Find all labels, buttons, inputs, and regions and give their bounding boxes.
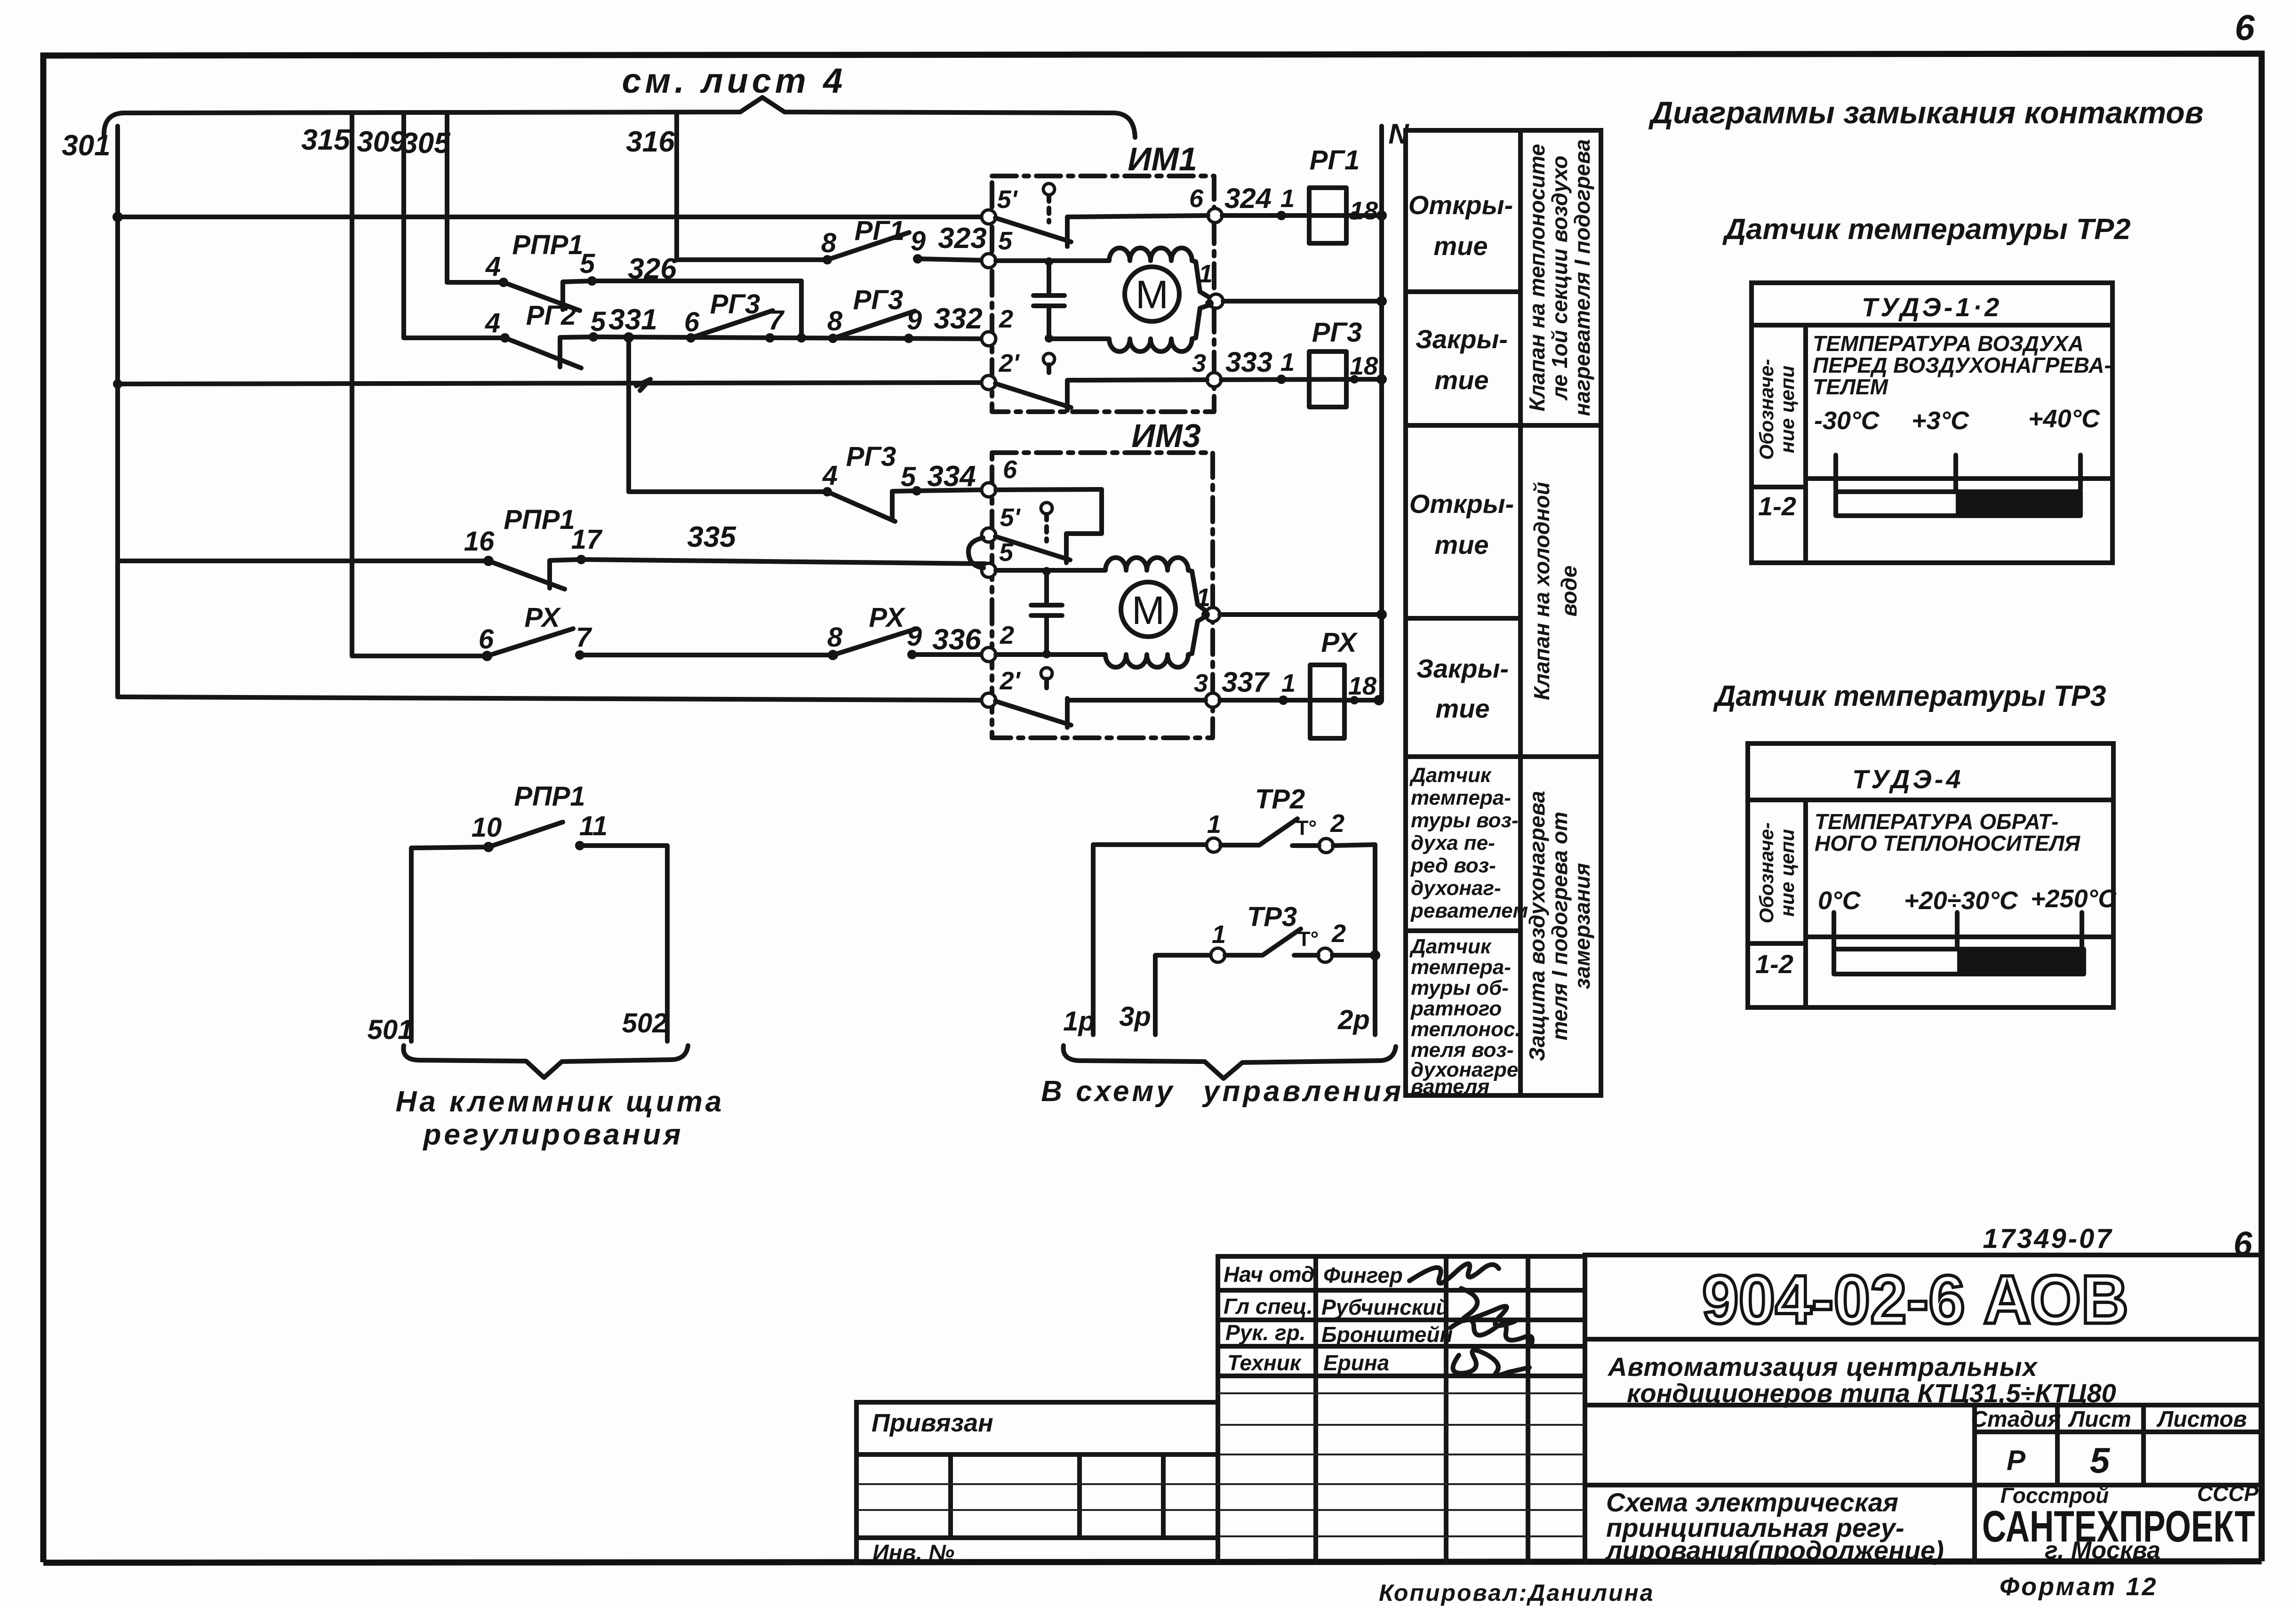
svg-text:ТУДЭ-1·2: ТУДЭ-1·2 (1862, 292, 2002, 322)
svg-text:3р: 3р (1119, 1001, 1151, 1032)
svg-text:301: 301 (62, 129, 110, 162)
svg-text:Защита воздухонагрева: Защита воздухонагрева (1525, 791, 1549, 1062)
svg-text:2': 2' (1000, 667, 1021, 695)
svg-text:лирования(продолжение): лирования(продолжение) (1605, 1535, 1944, 1565)
svg-text:333: 333 (1225, 346, 1272, 378)
svg-text:Закры-: Закры- (1416, 654, 1509, 683)
svg-text:6: 6 (1003, 455, 1017, 484)
svg-text:9: 9 (907, 305, 922, 336)
svg-text:501: 501 (368, 1015, 413, 1045)
svg-text:8: 8 (827, 306, 843, 336)
svg-text:4: 4 (822, 460, 838, 491)
svg-text:РГ1: РГ1 (1310, 145, 1360, 176)
svg-text:1: 1 (1212, 920, 1226, 949)
svg-text:ТУДЭ-4: ТУДЭ-4 (1852, 764, 1963, 794)
svg-text:323: 323 (938, 222, 986, 255)
svg-text:1-2: 1-2 (1758, 491, 1796, 521)
svg-text:кондиционеров типа КТЦ31,5÷КТЦ: кондиционеров типа КТЦ31,5÷КТЦ80 (1627, 1378, 2116, 1408)
svg-text:Обозначе-: Обозначе- (1755, 359, 1777, 460)
svg-text:2: 2 (1000, 621, 1014, 649)
svg-text:10: 10 (472, 812, 502, 843)
svg-text:1-2: 1-2 (1755, 949, 1793, 979)
svg-text:ние цепи: ние цепи (1776, 366, 1798, 453)
svg-text:9: 9 (911, 226, 926, 256)
svg-text:ПЕРЕД ВОЗДУХОНАГРЕВА-: ПЕРЕД ВОЗДУХОНАГРЕВА- (1813, 353, 2112, 377)
svg-text:Датчик температуры ТР3: Датчик температуры ТР3 (1713, 680, 2106, 712)
svg-text:Датчик: Датчик (1409, 764, 1492, 787)
svg-text:темпера-: темпера- (1411, 956, 1511, 979)
svg-text:Бронштейн: Бронштейн (1321, 1322, 1453, 1347)
svg-text:+250°С: +250°С (2031, 885, 2117, 913)
svg-text:тие: тие (1434, 365, 1488, 395)
svg-text:+20÷30°С: +20÷30°С (1904, 887, 2018, 915)
svg-text:см. лист 4: см. лист 4 (622, 61, 847, 100)
svg-text:ТЕЛЕМ: ТЕЛЕМ (1813, 375, 1889, 399)
svg-text:2: 2 (1330, 809, 1344, 838)
svg-text:РХ: РХ (869, 602, 905, 633)
svg-text:РГ3: РГ3 (710, 289, 760, 320)
svg-text:5: 5 (998, 227, 1013, 255)
svg-text:18: 18 (1350, 197, 1378, 225)
svg-text:5: 5 (2090, 1441, 2111, 1481)
svg-text:18: 18 (1348, 672, 1376, 700)
svg-text:2р: 2р (1337, 1005, 1370, 1035)
svg-text:Датчик температуры ТР2: Датчик температуры ТР2 (1722, 213, 2130, 246)
svg-text:Клапан на холодной: Клапан на холодной (1529, 482, 1554, 700)
svg-text:Клапан на теплоносите: Клапан на теплоносите (1525, 144, 1549, 411)
svg-text:РГ3: РГ3 (853, 285, 904, 315)
svg-text:Закры-: Закры- (1416, 324, 1508, 354)
svg-text:Р: Р (2007, 1445, 2026, 1476)
svg-text:теля I подогрева от: теля I подогрева от (1547, 812, 1572, 1040)
svg-text:нагревателя I подогрева: нагревателя I подогрева (1570, 139, 1594, 416)
svg-text:315: 315 (301, 124, 351, 156)
svg-text:904-02-6 АОВ: 904-02-6 АОВ (1702, 1261, 2128, 1338)
svg-text:РГ3: РГ3 (1312, 317, 1362, 348)
svg-text:РПР1: РПР1 (504, 504, 575, 535)
svg-text:г. Москва: г. Москва (2045, 1537, 2160, 1564)
svg-text:4: 4 (485, 308, 500, 338)
svg-text:М: М (1132, 588, 1165, 632)
svg-text:316: 316 (626, 126, 675, 158)
svg-text:337: 337 (1222, 666, 1270, 698)
svg-text:Лист: Лист (2068, 1407, 2131, 1432)
svg-text:Гл спец.: Гл спец. (1224, 1294, 1313, 1318)
svg-text:ратного: ратного (1410, 997, 1502, 1020)
svg-text:16: 16 (464, 526, 495, 557)
svg-text:3: 3 (1194, 669, 1208, 697)
svg-text:2: 2 (999, 305, 1013, 333)
svg-text:Стадия: Стадия (1971, 1407, 2061, 1432)
svg-text:ТР3: ТР3 (1247, 902, 1297, 932)
svg-text:ТЕМПЕРАТУРА ОБРАТ-: ТЕМПЕРАТУРА ОБРАТ- (1815, 809, 2058, 834)
svg-text:8: 8 (821, 228, 837, 258)
svg-text:Рук. гр.: Рук. гр. (1225, 1320, 1306, 1345)
svg-text:Т°: Т° (1298, 927, 1319, 951)
svg-text:НОГО ТЕПЛОНОСИТЕЛЯ: НОГО ТЕПЛОНОСИТЕЛЯ (1815, 831, 2081, 855)
svg-text:духонаг-: духонаг- (1411, 877, 1501, 900)
svg-text:Т°: Т° (1296, 816, 1317, 839)
svg-text:+3°С: +3°С (1912, 407, 1969, 435)
svg-text:1: 1 (1207, 810, 1221, 839)
svg-text:управления: управления (1202, 1075, 1404, 1108)
svg-text:335: 335 (687, 521, 736, 553)
svg-text:Откры-: Откры- (1408, 190, 1513, 220)
svg-text:2': 2' (999, 349, 1020, 377)
svg-text:309: 309 (357, 126, 406, 158)
svg-text:ле 1ой секции воздухо: ле 1ой секции воздухо (1547, 156, 1572, 401)
svg-text:17: 17 (571, 524, 603, 555)
svg-text:туры об-: туры об- (1411, 976, 1509, 999)
svg-text:-30°С: -30°С (1814, 407, 1880, 435)
svg-text:3: 3 (1192, 349, 1206, 377)
svg-text:Рубчинский: Рубчинский (1321, 1295, 1449, 1319)
svg-text:332: 332 (934, 303, 982, 335)
svg-text:туры воз-: туры воз- (1411, 809, 1519, 832)
svg-text:9: 9 (907, 621, 922, 652)
svg-text:5': 5' (997, 185, 1018, 214)
svg-text:5': 5' (1000, 503, 1021, 532)
svg-text:РГ3: РГ3 (846, 441, 896, 472)
svg-text:тие: тие (1434, 530, 1488, 559)
svg-text:РХ: РХ (1321, 627, 1358, 658)
svg-text:ТЕМПЕРАТУРА ВОЗДУХА: ТЕМПЕРАТУРА ВОЗДУХА (1813, 331, 2084, 356)
svg-text:В схему: В схему (1041, 1075, 1175, 1108)
svg-text:334: 334 (927, 460, 976, 493)
svg-text:8: 8 (827, 622, 843, 653)
svg-text:305: 305 (401, 127, 451, 160)
svg-text:РПР1: РПР1 (514, 781, 585, 812)
svg-text:331: 331 (608, 304, 657, 336)
svg-text:вателя: вателя (1411, 1075, 1489, 1098)
svg-text:Обозначе-: Обозначе- (1755, 823, 1777, 924)
svg-text:+40°С: +40°С (2028, 405, 2100, 433)
svg-text:6: 6 (1189, 184, 1204, 213)
svg-text:17349-07: 17349-07 (1983, 1223, 2113, 1254)
svg-text:ние цепи: ние цепи (1776, 829, 1798, 917)
svg-text:ИМ3: ИМ3 (1131, 417, 1201, 454)
svg-text:502: 502 (622, 1008, 668, 1039)
svg-text:336: 336 (932, 623, 981, 656)
svg-text:1: 1 (1280, 348, 1295, 376)
svg-text:1р: 1р (1063, 1006, 1095, 1037)
svg-text:М: М (1136, 272, 1168, 317)
svg-text:4: 4 (485, 251, 501, 282)
svg-text:7: 7 (576, 622, 592, 653)
svg-text:Копировал:Данилина: Копировал:Данилина (1379, 1580, 1655, 1606)
svg-text:Привязан: Привязан (872, 1409, 993, 1437)
svg-text:РГ2: РГ2 (526, 300, 576, 331)
svg-text:Фингер: Фингер (1323, 1263, 1403, 1287)
svg-text:Формат 12: Формат 12 (2000, 1573, 2158, 1601)
svg-text:Датчик: Датчик (1409, 935, 1492, 958)
svg-text:6: 6 (2235, 8, 2255, 48)
svg-text:Инв. №: Инв. № (872, 1541, 954, 1566)
svg-text:Техник: Техник (1227, 1350, 1302, 1375)
svg-text:ТР2: ТР2 (1255, 784, 1305, 815)
svg-text:Диаграммы замыкания контактов: Диаграммы замыкания контактов (1648, 95, 2203, 130)
svg-text:замерзания: замерзания (1570, 863, 1594, 989)
svg-text:тие: тие (1433, 231, 1488, 261)
svg-text:5: 5 (901, 462, 916, 492)
svg-text:Ерина: Ерина (1323, 1350, 1389, 1375)
svg-text:5: 5 (591, 306, 606, 337)
svg-text:11: 11 (579, 811, 608, 841)
svg-text:Откры-: Откры- (1409, 489, 1514, 519)
svg-text:ИМ1: ИМ1 (1128, 141, 1197, 177)
svg-text:РГ1: РГ1 (855, 216, 905, 246)
svg-text:Нач отд: Нач отд (1224, 1262, 1314, 1286)
svg-text:1: 1 (1281, 669, 1296, 697)
svg-text:7: 7 (768, 305, 785, 336)
svg-text:тие: тие (1435, 694, 1489, 723)
svg-text:ревателем: ревателем (1410, 899, 1528, 922)
svg-text:РХ: РХ (524, 602, 561, 633)
svg-text:6: 6 (684, 307, 700, 337)
svg-text:На клеммник щита: На клеммник щита (396, 1086, 725, 1118)
svg-text:ред воз-: ред воз- (1410, 854, 1496, 877)
svg-text:1: 1 (1280, 184, 1295, 213)
svg-text:2: 2 (1331, 919, 1346, 948)
svg-text:темпера-: темпера- (1411, 786, 1511, 809)
svg-text:РПР1: РПР1 (512, 230, 583, 260)
svg-text:Листов: Листов (2156, 1407, 2247, 1432)
svg-text:Автоматизация центральных: Автоматизация центральных (1607, 1352, 2039, 1382)
svg-text:воде: воде (1557, 566, 1581, 617)
svg-text:0°С: 0°С (1818, 887, 1861, 915)
svg-text:324: 324 (1224, 183, 1272, 214)
svg-text:регулирования: регулирования (422, 1119, 683, 1151)
svg-text:5: 5 (580, 248, 595, 279)
svg-text:духа пе-: духа пе- (1411, 831, 1495, 855)
svg-text:теплонос.: теплонос. (1411, 1018, 1521, 1041)
svg-text:6: 6 (479, 624, 494, 655)
